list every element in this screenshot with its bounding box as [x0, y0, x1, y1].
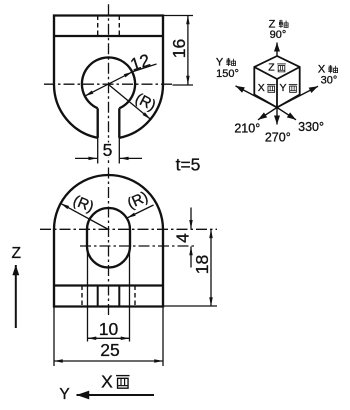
cube inner edges [254, 67, 299, 108]
dimension 5 text halo [101, 143, 115, 158]
dimension 4 arrows [190, 208, 192, 229]
cube axis arrow 90 [276, 43, 278, 57]
dimension 10 extension lines [88, 248, 130, 342]
cube axis arrow 30 [277, 86, 318, 107]
dimension 25 extension lines [54, 307, 163, 367]
cube axis arrow 210 [258, 108, 277, 120]
svg-text:Z: Z [268, 62, 275, 74]
svg-text:X: X [101, 372, 113, 392]
top view step line [54, 35, 163, 37]
front view horizontal center line upper [40, 228, 217, 230]
front view outline [54, 175, 163, 307]
dimension 5 extension lines [98, 138, 120, 164]
svg-text:t=5: t=5 [176, 155, 201, 175]
svg-text:90°: 90° [270, 29, 287, 41]
svg-text:Y: Y [59, 386, 69, 403]
svg-text:X: X [258, 82, 265, 94]
top view hole circle [82, 57, 135, 108]
dimension 18 extension line [163, 305, 217, 307]
dimension 16 extension lines [163, 16, 193, 86]
cube axis arrow 330 [277, 108, 296, 120]
front view obround hole [87, 208, 130, 268]
top view outline [54, 16, 163, 138]
front view radius leader left (R) [61, 203, 109, 229]
dimension 25 line with arrows [54, 360, 163, 362]
svg-text:150°: 150° [216, 68, 239, 80]
dimension 10 line with arrows [88, 337, 130, 339]
top view slot left edge [97, 108, 99, 138]
svg-text:30°: 30° [321, 75, 338, 87]
dimension 12 line with arrows [85, 72, 133, 96]
front view slot edge right [118, 286, 120, 307]
cube axis arrow 150 [236, 86, 278, 108]
top view vertical center line [108, 4, 110, 163]
front view vertical center line [108, 168, 110, 319]
svg-text:5: 5 [103, 140, 113, 160]
dimension 12 leader extension [133, 64, 157, 72]
front view band line [54, 284, 163, 286]
svg-text:25: 25 [100, 340, 119, 360]
svg-text:Y: Y [279, 82, 286, 94]
front view hidden line right [134, 286, 136, 307]
top view horizontal center line [44, 83, 172, 85]
top view hidden line right [118, 16, 120, 37]
svg-text:Z: Z [11, 245, 20, 262]
top view hidden line left [97, 16, 99, 37]
Y axis arrow [77, 394, 155, 396]
front view hidden line left [81, 286, 83, 307]
svg-text:18: 18 [192, 255, 212, 274]
svg-text:330°: 330° [298, 120, 324, 134]
dimension 18 line with arrows [210, 229, 212, 306]
top view radius leader (R) [109, 85, 151, 120]
cube outline [254, 56, 299, 108]
front view radius leader right (R) [127, 205, 154, 218]
dimension 5 arrows [75, 157, 97, 159]
svg-text:270°: 270° [265, 130, 291, 144]
svg-text:10: 10 [99, 319, 119, 339]
svg-text:4: 4 [172, 233, 192, 243]
front view horizontal center line lower [80, 245, 197, 247]
Z axis arrow [15, 265, 17, 328]
svg-text:210°: 210° [234, 122, 260, 136]
cube axis arrow 270 [276, 108, 278, 125]
top view slot right edge [118, 108, 120, 138]
svg-text:Y: Y [216, 57, 224, 69]
svg-text:16: 16 [169, 39, 189, 58]
front view slot edge left [97, 286, 99, 307]
dimension 16 line with arrows [187, 16, 189, 85]
